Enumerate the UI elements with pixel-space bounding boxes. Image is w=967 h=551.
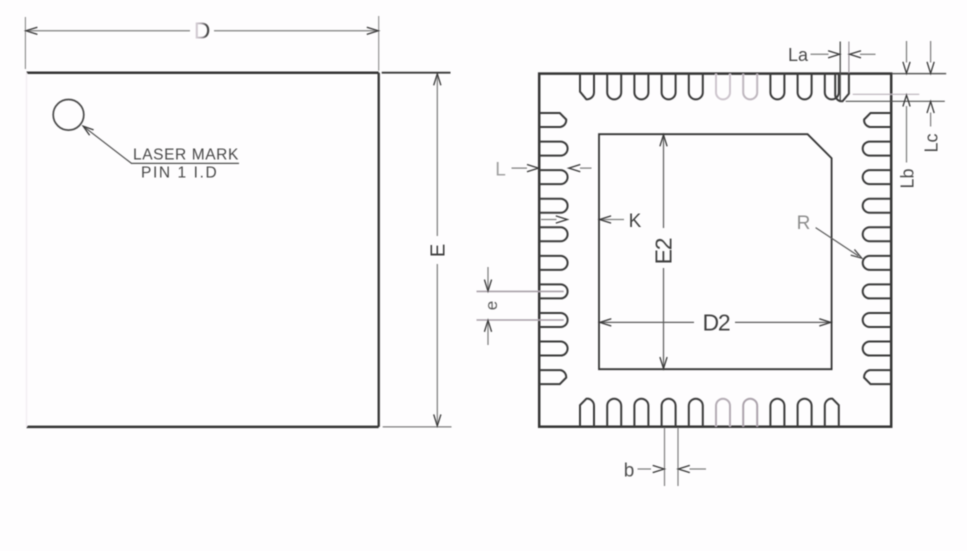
svg-text:K: K [629,211,642,232]
svg-text:E2: E2 [651,238,677,264]
svg-text:PIN 1 I.D: PIN 1 I.D [141,165,218,182]
svg-text:La: La [788,45,809,65]
svg-text:E: E [427,244,449,257]
svg-text:D2: D2 [702,309,729,335]
svg-text:Lb: Lb [898,168,918,188]
svg-text:R: R [797,213,811,234]
svg-text:b: b [624,461,635,482]
svg-text:D: D [194,18,211,44]
svg-text:e: e [482,301,501,310]
svg-text:Lc: Lc [922,133,942,152]
svg-text:L: L [495,160,506,181]
svg-text:LASER MARK: LASER MARK [133,147,239,164]
